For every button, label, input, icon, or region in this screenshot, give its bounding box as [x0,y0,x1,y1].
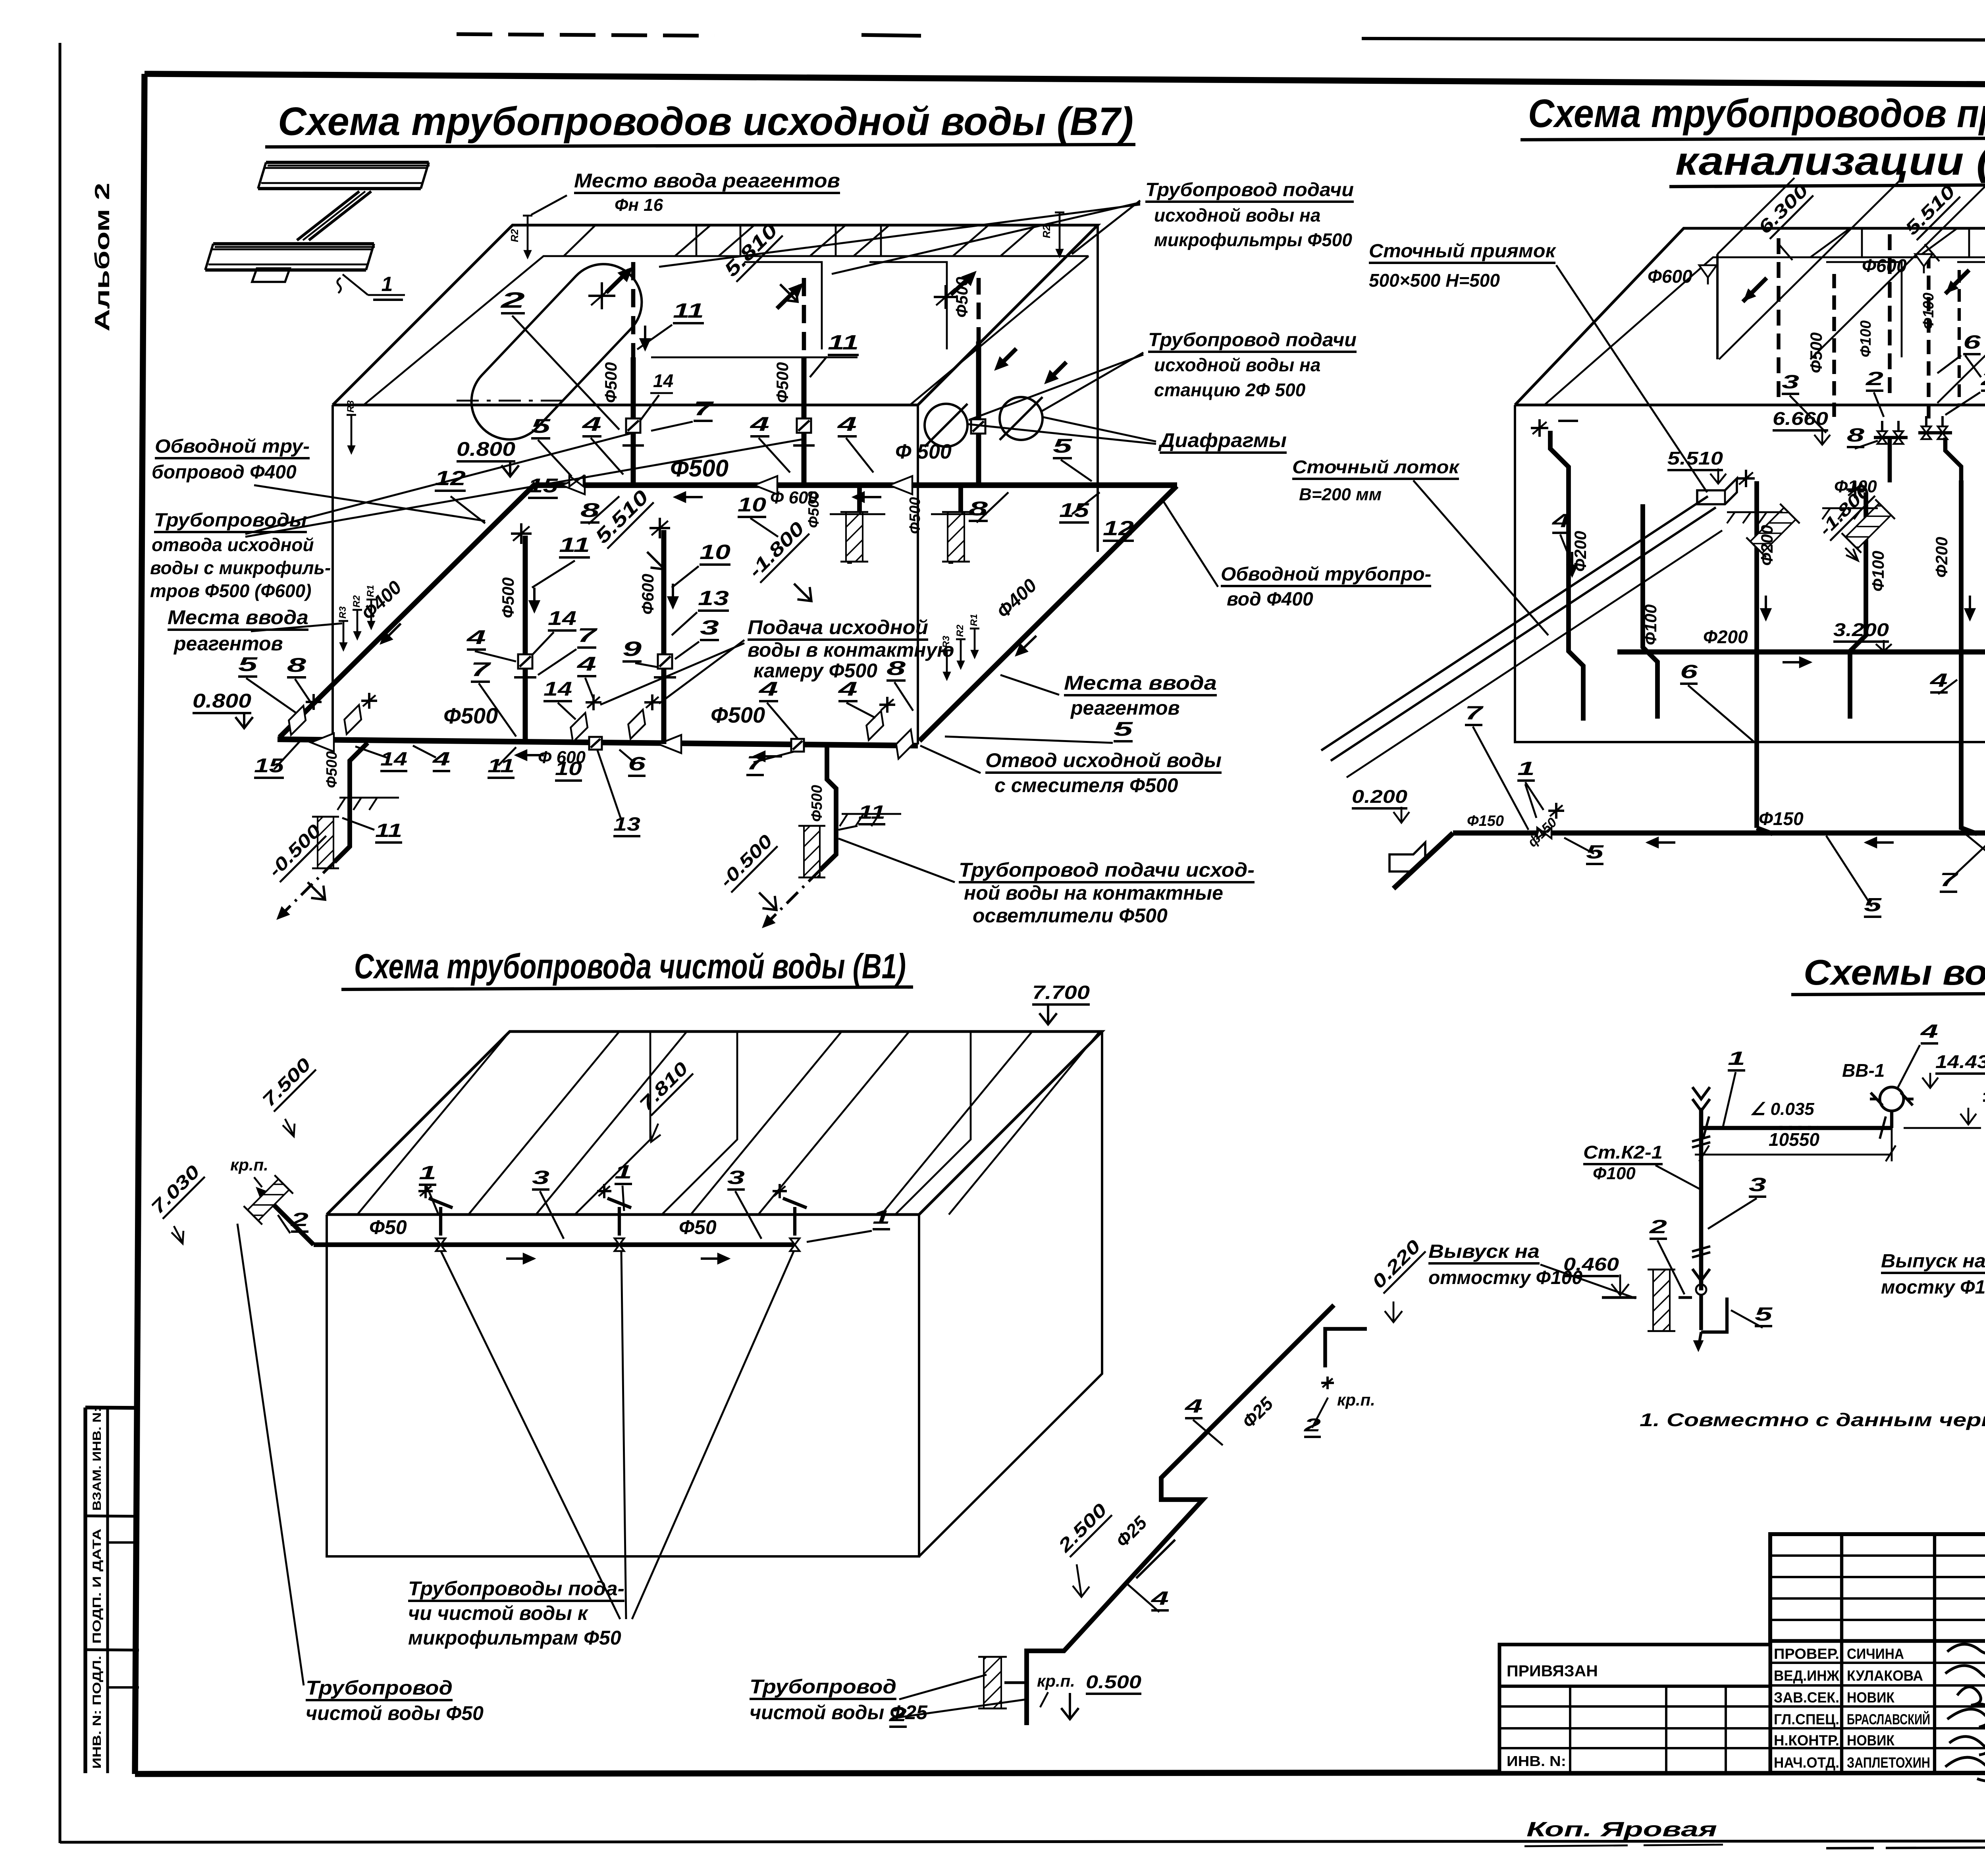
K3 drain pipe stub zigzags [1945,438,1961,480]
B1 pipe main F50 [314,1242,795,1247]
K3 roof partition walls [1826,262,1902,357]
svg-text:Подача исходной: Подача исходной [748,616,928,638]
svg-text:кр.п.: кр.п. [1037,1672,1075,1690]
svg-text:ЗАПЛЕТОХИН: ЗАПЛЕТОХИН [1847,1755,1930,1771]
K3 funnel 2 [1915,254,1933,266]
svg-text:0.800: 0.800 [193,690,251,712]
svg-text:R1: R1 [969,614,979,626]
svg-text:Ф500: Ф500 [499,577,517,618]
svg-text:6: 6 [1963,332,1981,353]
K3 sump cube [1697,478,1737,504]
svg-text:1: 1 [1517,758,1535,779]
svg-text:Схема трубопровода чистой воды: Схема трубопровода чистой воды (В1) [354,947,906,986]
svg-text:микрофильтры Ф500: микрофильтры Ф500 [1154,229,1352,250]
svg-text:3.200: 3.200 [1833,619,1889,640]
K3 vertical drain P5 [1961,480,1977,834]
svg-text:Ф150: Ф150 [1759,808,1804,829]
svg-text:2: 2 [1303,1415,1321,1435]
svg-text:0.800: 0.800 [457,438,515,460]
B7 flag valves right lower [860,711,890,740]
K3 flow arrows drains [1571,552,1573,576]
B1 pipe left end [260,1191,314,1245]
B7 V1 valve [626,418,640,433]
svg-text:Диафрагмы: Диафрагмы [1158,429,1287,451]
svg-text:станцию 2Ф 500: станцию 2Ф 500 [1154,380,1306,400]
svg-text:Ф200: Ф200 [1571,531,1590,572]
svg-text:ВВ-1: ВВ-1 [1842,1060,1885,1081]
K3 vertical drain P3 [1754,481,1759,828]
K3 roof dashed risers [1777,238,1780,401]
svg-text:4: 4 [758,678,778,700]
B7 pipe main upper F500 [534,482,1177,488]
B7 V4 valve [518,654,532,669]
svg-text:Ф500: Ф500 [952,277,971,318]
B7 detail leader 1 [343,274,368,295]
svg-text:11: 11 [488,756,515,777]
B7 mixer axis dashdot [457,400,568,402]
K3 funnel 1 [1699,265,1717,278]
K3 roof long partition diagonals [1719,179,1902,359]
B7 left drop pipe [334,743,368,862]
svg-text:500×500 Н=500: 500×500 Н=500 [1369,270,1500,291]
K2 riser1 ground line [1602,1296,1636,1299]
svg-text:4: 4 [432,749,450,770]
svg-text:реагентов: реагентов [1070,697,1180,719]
svg-text:2: 2 [500,287,525,312]
svg-text:5: 5 [1755,1304,1773,1325]
B7 drop pipes below upper main [850,485,860,564]
title block revision rows [1770,1554,1985,1557]
svg-text:5: 5 [1586,842,1604,863]
svg-text:Сточный приямок: Сточный приямок [1369,241,1557,262]
svg-text:7: 7 [577,624,598,646]
svg-text:тров Ф500 (Ф600): тров Ф500 (Ф600) [150,580,311,601]
svg-text:Ф600: Ф600 [1648,266,1692,287]
B7 riser V1 [631,357,636,485]
svg-text:Обводной трубопро-: Обводной трубопро- [1221,564,1431,585]
K2 riser1 wall hatch [1648,1270,1675,1331]
svg-text:мостку Ф100: мостку Ф100 [1881,1277,1985,1298]
svg-text:4: 4 [750,413,769,435]
svg-text:НОВИК: НОВИК [1847,1689,1894,1706]
svg-text:Места ввода: Места ввода [168,606,308,629]
B7 riser V5 [661,530,667,744]
svg-text:8: 8 [887,657,906,679]
svg-text:Вывуск на: Вывуск на [1428,1241,1540,1262]
svg-text:Ф200: Ф200 [1932,537,1951,578]
svg-text:кр.п.: кр.п. [1337,1390,1375,1409]
B7 V5 valve [658,654,672,669]
K3 tank front face [1515,405,1985,742]
svg-text:3: 3 [1749,1174,1766,1195]
K2 VV-1 drain funnel circle [1880,1087,1904,1111]
B1 valve 3 with stem [790,1238,800,1245]
svg-text:5: 5 [531,415,551,437]
B7 left drop dashdot out [278,862,334,918]
svg-text:осветлители Ф500: осветлители Ф500 [973,904,1168,927]
svg-text:15: 15 [1059,499,1090,521]
svg-text:4: 4 [838,678,858,700]
svg-text:ВЗАМ. ИНВ. N:: ВЗАМ. ИНВ. N: [91,1407,104,1511]
B7 right drop wall crossing [798,826,825,877]
svg-text:Ф150: Ф150 [1467,813,1504,829]
svg-text:Ф100: Ф100 [1858,320,1874,357]
svg-text:R2: R2 [351,595,362,607]
B7 bypass pipe left F400 [279,484,536,737]
svg-text:6.660: 6.660 [1773,408,1828,429]
K3 roof thick stubs [1743,278,1767,302]
svg-text:6: 6 [628,754,646,775]
K2 riser 1 break ticks [1692,1136,1710,1141]
B1 tank front face [327,1215,919,1556]
B7 right drop dashdot out [763,870,820,927]
B7 riser V2 [802,357,807,485]
K3 drain collector F200 [1617,652,1985,680]
B1 tank right face [919,1032,1102,1556]
svg-text:воды в контактную: воды в контактную [748,639,954,661]
K3 vertical drain P1 [1550,431,1583,721]
svg-text:R3: R3 [337,606,348,619]
svg-text:КУЛАКОВА: КУЛАКОВА [1847,1668,1923,1684]
B1 leader fan to valves [441,1251,620,1619]
B7 detail I-beam bottom [213,242,374,245]
B7 flag valves mid lower [565,713,594,742]
K3 tank roof outline [1515,228,1985,405]
sheet edge top [1362,39,1985,41]
svg-text:∠ 0.035: ∠ 0.035 [1750,1099,1814,1119]
B7 tank front left edge [331,405,334,742]
svg-text:микрофильтрам Ф50: микрофильтрам Ф50 [408,1627,621,1649]
K3 P1 top tick [1558,420,1578,422]
svg-text:реагентов: реагентов [173,632,283,655]
svg-text:11: 11 [858,802,885,823]
B7 right drop pipe [820,746,836,870]
svg-text:кр.п.: кр.п. [230,1155,268,1174]
B7 detail base plate [252,268,290,282]
svg-text:2: 2 [1980,368,1985,389]
svg-text:с смесителя Ф500: с смесителя Ф500 [994,774,1178,796]
svg-text:10: 10 [700,541,730,564]
svg-text:ЗАВ.СЕК.: ЗАВ.СЕК. [1774,1689,1839,1706]
svg-text:Трубопроводы пода-: Трубопроводы пода- [408,1577,624,1600]
B7 lower pipe valves [589,737,602,750]
B7 orifice circle 1 [925,404,967,447]
B7 V5 flow arrow [672,584,674,607]
svg-text:Трубопровод подачи: Трубопровод подачи [1145,179,1354,201]
B7 V4 flow arrow [533,588,536,611]
svg-text:0.500: 0.500 [1086,1672,1141,1692]
svg-text:бопровод Ф400: бопровод Ф400 [152,462,297,483]
K3 hatched crossings mid [1746,504,1800,557]
svg-text:Н.КОНТР.: Н.КОНТР. [1774,1732,1839,1749]
B1 F25 outfall flag [1325,1329,1367,1367]
B7 roof partition diagonals [696,225,698,256]
B1 tank roof outline [327,1032,1102,1215]
svg-text:0.200: 0.200 [1352,786,1407,807]
svg-text:5: 5 [1114,718,1133,740]
svg-text:Ф100: Ф100 [1920,293,1937,330]
svg-text:10: 10 [738,494,766,516]
svg-text:14.430: 14.430 [1935,1051,1985,1072]
svg-text:Ф600: Ф600 [1862,255,1907,276]
B7 left drop wall crossing [312,817,339,868]
B7 bypass right flow arrow [1016,636,1036,655]
B7 flow arrows into orifices [997,349,1016,368]
B7 flag valve near junction [338,705,368,734]
sheet edge left [58,43,61,1843]
svg-text:4: 4 [1551,511,1570,532]
svg-text:Ф500: Ф500 [806,491,822,528]
svg-text:4: 4 [1920,1021,1938,1042]
signatures squiggles [1945,1644,1985,1781]
K2 riser 1 end ticks [1703,1116,1709,1139]
B7 upper pipe flow arrows [675,496,703,498]
svg-text:Трубопроводы: Трубопроводы [154,510,307,531]
svg-text:3: 3 [700,616,719,639]
svg-text:Коп. Яровая: Коп. Яровая [1526,1818,1717,1841]
B7 flag valves on bypass base [283,706,312,735]
svg-text:10: 10 [555,758,582,779]
svg-text:R2: R2 [509,229,520,242]
B7 V1 tick [622,444,644,447]
B7 tank roof inner band [364,256,1089,405]
svg-text:Место ввода реагентов: Место ввода реагентов [574,170,840,192]
B1 roof partition fins [575,1032,650,1215]
svg-text:Ф500: Ф500 [443,703,498,728]
K3 bottom pipe F150 [1453,831,1985,836]
B1 roof partition diagonals [357,1032,510,1215]
svg-text:14: 14 [548,607,576,629]
svg-text:2: 2 [1649,1217,1667,1238]
svg-text:Ф200: Ф200 [1758,525,1776,566]
svg-text:15: 15 [254,754,285,777]
svg-text:0.460: 0.460 [1563,1254,1619,1274]
B7 detail S mark [337,278,341,293]
svg-text:Ф500: Ф500 [1807,332,1825,373]
privyazan rows [1499,1685,1770,1688]
K2 riser 1 vent top [1692,1087,1710,1099]
svg-text:1. Совместно с данным чертежо: 1. Совместно с данным чертежом см. черте… [1640,1409,1985,1430]
svg-text:чистой воды Ф25: чистой воды Ф25 [750,1701,928,1724]
B7 lower pipe reducer triangles [311,733,334,752]
privyazan block outer [1499,1645,1770,1773]
B7 V1 flow arrow down [644,326,646,349]
svg-text:Ф500: Ф500 [670,455,728,482]
svg-text:отвода исходной: отвода исходной [152,534,314,555]
K3 channel outlet block [1389,843,1425,871]
svg-text:Схема трубопроводов производ: Схема трубопроводов производственной [1528,91,1985,136]
title block signature rows [1770,1662,1985,1664]
B1 F25 wall crossing [978,1657,1007,1708]
svg-text:12: 12 [1103,517,1134,540]
B1 pipe flow arrows [506,1257,534,1260]
svg-text:исходной воды на: исходной воды на [1154,205,1320,226]
B7 reagent inlet top left [527,216,529,257]
svg-text:СИЧИНА: СИЧИНА [1847,1646,1904,1662]
B7 mixer cross mark [588,295,615,297]
svg-text:Ф600: Ф600 [638,574,657,615]
svg-text:Фн 16: Фн 16 [615,195,663,215]
B1 long leader to F50 label [237,1224,304,1685]
B1 left end wall crossing [244,1175,293,1224]
svg-text:воды с микрофиль-: воды с микрофиль- [150,557,331,578]
B7 lower pipe flow arrows [516,754,544,756]
svg-text:ИНВ. N:: ИНВ. N: [1507,1753,1566,1769]
svg-text:R3: R3 [345,400,356,413]
B7 bypass left flow arrow [381,624,401,644]
B1 valve 1 with stem [436,1238,445,1245]
svg-text:НАЧ.ОТД.: НАЧ.ОТД. [1774,1755,1839,1771]
svg-text:Сточный лоток: Сточный лоток [1292,457,1460,477]
svg-text:Ф50: Ф50 [679,1216,717,1238]
B7 reagent single left wall R3 [351,415,353,453]
svg-text:Ф100: Ф100 [1869,551,1887,592]
B7 tank roof outline [333,225,1098,405]
svg-text:4: 4 [576,653,596,675]
svg-text:1: 1 [382,273,393,296]
K3 roof interior wall verticals [1716,254,1719,359]
svg-text:В=200 мм: В=200 мм [1299,485,1382,504]
svg-text:9: 9 [622,638,642,661]
B7 reagent inlet top right [1059,212,1061,256]
B7 left drop ground hatch [339,797,399,799]
svg-text:2: 2 [290,1209,308,1230]
K3 bottom pipe bowtie left [1537,828,1544,839]
svg-text:Схемы водостоков (К2): Схемы водостоков (К2) [1804,953,1985,993]
svg-text:Ст.К2-1: Ст.К2-1 [1583,1142,1663,1163]
svg-text:Ф500: Ф500 [907,497,923,534]
svg-text:Места ввода: Места ввода [1064,672,1217,694]
svg-text:8: 8 [287,654,306,676]
svg-text:6: 6 [1680,661,1698,683]
svg-text:3: 3 [532,1167,549,1188]
svg-text:4: 4 [466,626,486,648]
K3 bottom pipe left end [1393,833,1453,889]
B1 pipe F25 run [1027,1305,1334,1725]
svg-text:канализации (К3): канализации (К3) [1675,139,1985,183]
svg-text:Трубопровод: Трубопровод [750,1675,896,1698]
B7 riser V4 [523,536,528,743]
B7 orifice circle 2 [1000,397,1043,440]
svg-text:11: 11 [375,820,402,841]
B7 V3 valve [971,419,985,434]
B7 pipe main lower F500 [278,739,918,746]
svg-text:ПРИВЯЗАН: ПРИВЯЗАН [1507,1662,1598,1680]
K3 ground hatch marks [1727,511,1783,513]
B7 V2 tick [793,444,815,447]
K3 sewage channel diagonals [1321,496,1708,750]
svg-text:5.510: 5.510 [1667,448,1723,469]
svg-text:8: 8 [580,499,599,521]
svg-text:ной воды на контактные: ной воды на контактные [964,882,1223,904]
svg-text:ВЕД.ИНЖ: ВЕД.ИНЖ [1774,1668,1840,1684]
svg-text:1: 1 [1728,1048,1745,1069]
B7 reagent cluster left [343,621,345,650]
K2 riser 1 horizontal pipe [1701,1126,1892,1130]
svg-text:Ф50: Ф50 [369,1216,407,1238]
svg-text:14: 14 [380,749,407,770]
svg-text:ПОДП. И ДАТА: ПОДП. И ДАТА [91,1529,104,1644]
svg-text:Ф500: Ф500 [809,785,825,822]
svg-text:1: 1 [615,1162,632,1183]
svg-text:7: 7 [746,753,765,774]
svg-text:исходной воды на: исходной воды на [1154,355,1320,375]
svg-text:R2: R2 [1041,225,1052,238]
K3 vertical drain P2 sump [1643,504,1657,719]
svg-text:3: 3 [1782,372,1799,393]
svg-text:7: 7 [1465,703,1484,724]
svg-text:14: 14 [543,678,572,700]
svg-text:4: 4 [582,413,601,435]
B7 right drop ground hatch [842,813,901,815]
svg-text:Трубопровод подачи исход-: Трубопровод подачи исход- [959,859,1255,881]
svg-text:11: 11 [673,299,704,322]
privyazan columns [1569,1686,1571,1773]
svg-text:ПРОВЕР.: ПРОВЕР. [1774,1646,1839,1662]
svg-text:14: 14 [653,370,673,391]
K3 collector flow arrows [1783,661,1810,663]
B7 upper pipe bowtie 15 [569,476,576,487]
svg-text:11: 11 [559,534,590,557]
svg-text:Ф 500: Ф 500 [895,440,952,463]
svg-text:3: 3 [727,1167,745,1188]
svg-text:7: 7 [471,658,491,681]
B7 roof partition walls [744,262,822,349]
svg-text:11: 11 [828,331,859,354]
svg-text:7.700: 7.700 [1032,982,1090,1003]
svg-text:Трубопровод: Трубопровод [306,1677,453,1699]
K3 bottom pipe flow arrows [1648,841,1675,844]
svg-text:БРАСЛАВСКИЙ: БРАСЛАВСКИЙ [1847,1711,1930,1728]
K3 roof partitions [1810,228,1850,257]
svg-text:чистой воды Ф50: чистой воды Ф50 [306,1702,484,1724]
svg-text:13: 13 [613,814,640,835]
K3 tank roof inner band [1544,257,1985,405]
title block revision grid verticals [1840,1534,1843,1773]
svg-text:ИНВ. N: ПОДЛ.: ИНВ. N: ПОДЛ. [91,1656,104,1769]
svg-text:Выпуск на от-: Выпуск на от- [1881,1251,1985,1272]
drawing frame [145,74,1985,87]
svg-text:Ф100: Ф100 [1641,604,1660,645]
svg-text:1: 1 [873,1207,890,1228]
B7 riser V3 right [976,341,981,485]
svg-text:Ф500: Ф500 [601,362,620,403]
title block outer [1770,1534,1985,1773]
K2 riser 1 vertical [1699,1108,1704,1290]
svg-text:Отвод исходной воды: Отвод исходной воды [985,749,1222,771]
svg-text:Ф100: Ф100 [1593,1164,1636,1183]
svg-text:4: 4 [1184,1396,1203,1417]
svg-text:R2: R2 [955,625,966,637]
svg-text:1: 1 [419,1163,436,1184]
svg-text:Альбом 2: Альбом 2 [91,183,114,332]
svg-text:Ф500: Ф500 [773,362,792,403]
B1 valve 2 with stem [615,1238,624,1245]
B7 tank front right edge [917,405,919,744]
B7 ground hatch upper drops [830,513,885,515]
B7 reagent cluster right [946,650,948,679]
B7 bypass pipe right F400 [919,486,1177,741]
B7 detail I-beam top [266,161,429,164]
svg-text:Ф200: Ф200 [1703,627,1748,647]
svg-text:Ф500: Ф500 [324,751,340,788]
B7 mixer cylinder [456,249,657,455]
svg-text:Обводной тру-: Обводной тру- [155,436,310,457]
B7 detail diagonal strut [297,191,359,240]
svg-text:13: 13 [698,587,729,610]
svg-text:2: 2 [1865,368,1883,389]
left margin stamp strip [83,1407,87,1773]
